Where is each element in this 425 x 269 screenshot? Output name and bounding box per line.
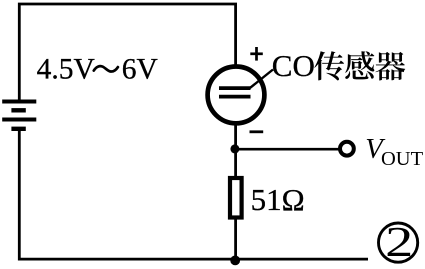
node A junction dot (230, 144, 239, 153)
value label 4.5V~6V (37, 53, 158, 85)
wire: node A to resistor R1 (234, 149, 237, 177)
label CO传感器 (CO sensor) (272, 48, 405, 83)
svg-text:2: 2 (385, 219, 413, 266)
wire: resistor R1 to bottom node (234, 219, 237, 259)
output terminal (open circle) (340, 142, 354, 156)
wire: node A to output terminal (236, 148, 339, 151)
svg-text:CO: CO (272, 48, 315, 83)
leader line to sensor label (250, 70, 273, 89)
wire: left rail top + top rail + sensor top lead (19, 4, 235, 101)
wire: left rail bottom + bottom rail (19, 129, 368, 259)
svg-text:51Ω: 51Ω (251, 182, 305, 217)
wire: sensor negative lead to node A (234, 121, 237, 150)
bottom node junction dot (230, 256, 240, 266)
resistor R1 (230, 178, 242, 218)
svg-text:6V: 6V (122, 53, 158, 85)
CO sensor (electrochemical cell in circle) (208, 67, 265, 124)
label VOUT (365, 134, 423, 170)
svg-text:OUT: OUT (381, 148, 424, 170)
polarity mark - (250, 130, 264, 133)
polarity mark + (250, 47, 262, 61)
battery B1 (two-cell) (2, 102, 36, 129)
annotation circled 2 (379, 219, 418, 266)
svg-text:4.5V: 4.5V (37, 53, 95, 85)
